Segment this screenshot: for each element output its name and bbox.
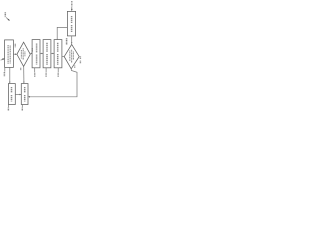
arrow into box A left side — [1, 58, 5, 60]
box E text — [57, 43, 59, 65]
top box text — [71, 16, 73, 32]
box C — [32, 40, 40, 68]
diamond F — [64, 44, 79, 68]
wire E top to top box (elbow) — [57, 27, 67, 39]
label below box E — [57, 68, 59, 73]
label 100 top-left — [5, 12, 10, 21]
diamond B — [17, 42, 30, 66]
label N near B bottom vertex — [20, 68, 22, 71]
box E — [54, 40, 62, 68]
label below box1 — [7, 104, 9, 107]
labels right of F — [79, 56, 81, 59]
box C text — [36, 44, 38, 65]
box1 (bottom left) — [8, 84, 15, 105]
diamond B text — [21, 48, 25, 60]
wire B bottom to box2 — [23, 67, 25, 83]
arrow box1 to box2 — [15, 94, 20, 96]
label below box2 — [21, 104, 23, 107]
box D — [43, 40, 51, 68]
label near F bottom vertex — [74, 66, 76, 69]
label left of that wire — [66, 38, 68, 45]
arrow D to E — [51, 52, 53, 54]
box A — [5, 40, 14, 68]
diamond F text — [70, 50, 74, 63]
box D text — [46, 43, 48, 65]
box2 (bottom) — [21, 84, 28, 105]
arrow C to D — [40, 52, 42, 54]
label below box D — [45, 68, 47, 73]
label below box C — [34, 68, 36, 73]
arrow + numeral above top box — [71, 1, 73, 7]
label below box A bottom-left — [4, 67, 6, 71]
wire box A bottom to box1 — [9, 67, 11, 82]
box1 text — [11, 87, 13, 102]
wire top box to diamond F — [71, 36, 73, 43]
arrow B to C — [30, 52, 31, 54]
box A text (rotated squiggle) — [8, 45, 10, 64]
arrow A to B — [13, 53, 17, 55]
label Y near B right vertex — [31, 48, 33, 52]
loop wire F bottom down around to box2 — [29, 69, 77, 97]
box2 text — [24, 87, 26, 102]
label near A/B — [14, 44, 16, 48]
top box — [67, 11, 75, 36]
connector E to F — [62, 56, 64, 58]
